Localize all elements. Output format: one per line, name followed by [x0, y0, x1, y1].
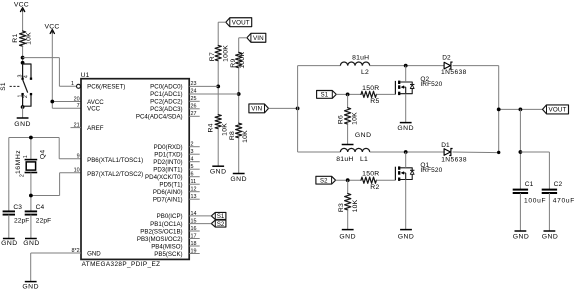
svg-text:VOUT: VOUT: [549, 107, 567, 114]
svg-text:S1: S1: [321, 93, 329, 99]
switch S1: [0, 61, 32, 109]
capacitor C1 100uF: [513, 181, 547, 204]
svg-text:GND: GND: [339, 234, 356, 241]
capacitor C4 22pF: [25, 204, 52, 225]
svg-text:C4: C4: [36, 204, 45, 211]
wire bottom rail left: [298, 151, 341, 153]
resistor R3 10K: [338, 180, 359, 212]
svg-text:GND: GND: [210, 169, 227, 176]
junction AVCC branch: [50, 100, 54, 104]
svg-text:2: 2: [23, 95, 29, 98]
net tag VIN (converter input): [249, 104, 269, 113]
junction crystal bottom: [29, 194, 33, 198]
wire pin14 to S1 tag: [189, 215, 211, 217]
svg-text:27: 27: [191, 111, 197, 117]
svg-text:PC4(ADC4/SDA): PC4(ADC4/SDA): [136, 114, 183, 121]
svg-text:150R: 150R: [362, 171, 379, 178]
junction node R1/S1/reset: [21, 56, 25, 60]
ground GND (Q1): [398, 230, 415, 241]
svg-text:22pF: 22pF: [14, 218, 29, 225]
svg-text:D1: D1: [441, 142, 450, 149]
svg-text:9: 9: [77, 154, 80, 160]
wire VOUT row: [499, 108, 543, 110]
svg-text:100uF: 100uF: [524, 197, 546, 204]
wire top rail left: [298, 65, 341, 67]
junction ADC1 node: [237, 92, 241, 96]
svg-text:6: 6: [191, 172, 194, 178]
svg-text:2: 2: [191, 142, 194, 148]
svg-text:PC0(ADC0): PC0(ADC0): [150, 84, 182, 91]
svg-text:GND: GND: [230, 176, 247, 183]
svg-text:5: 5: [191, 164, 194, 170]
wire VOUT tag to R7: [218, 22, 226, 45]
wire S2 tag to R2: [336, 179, 361, 181]
svg-text:100K: 100K: [223, 45, 230, 62]
net tag S1 (gate drive): [317, 91, 337, 99]
wire C1 branch: [519, 109, 521, 189]
junction R3 node (top): [346, 178, 350, 182]
svg-text:R1: R1: [12, 33, 19, 42]
svg-text:4: 4: [24, 75, 30, 78]
svg-text:PC2(ADC2): PC2(ADC2): [150, 99, 182, 106]
junction C1/C2 branch: [519, 150, 523, 154]
capacitor C3 22pF: [3, 204, 30, 225]
capacitor C2 470uF: [542, 181, 575, 204]
ground GND (C3): [1, 239, 18, 248]
crystal Q4 16MHz: [15, 150, 46, 178]
power flag VCC (U1 supply): [44, 24, 59, 34]
svg-text:10K: 10K: [25, 32, 32, 45]
svg-text:PC6(/RESET): PC6(/RESET): [87, 84, 125, 91]
net tag S2 (from PB1): [211, 220, 226, 228]
junction VIN rail: [296, 107, 300, 111]
svg-text:470uF: 470uF: [553, 197, 575, 204]
wire L2 to Q2 drain node: [370, 65, 444, 67]
ground GND (U1): [22, 282, 39, 291]
inductor L1 81uH: [336, 148, 369, 163]
svg-text:4: 4: [191, 157, 194, 163]
svg-text:GND: GND: [397, 125, 414, 132]
svg-text:R5: R5: [370, 98, 379, 105]
svg-text:21: 21: [74, 123, 80, 129]
svg-text:16: 16: [191, 226, 197, 232]
wire VCC to AVCC/VCC pins: [52, 34, 81, 109]
svg-text:PB6(XTAL1/TOSC1): PB6(XTAL1/TOSC1): [87, 157, 143, 164]
resistor R5 150R: [361, 85, 380, 105]
wire XTAL1 net: [9, 138, 81, 212]
svg-text:PD7(AIN1): PD7(AIN1): [153, 197, 183, 204]
svg-text:PB0(ICP): PB0(ICP): [157, 213, 183, 220]
svg-text:81uH: 81uH: [336, 156, 353, 163]
svg-text:R2: R2: [370, 184, 379, 191]
svg-text:1N5638: 1N5638: [441, 156, 467, 163]
svg-text:13: 13: [191, 194, 197, 200]
wire R5 to Q2 gate: [376, 93, 395, 95]
svg-text:R3: R3: [338, 203, 345, 212]
wire input rail: [297, 66, 299, 152]
svg-text:S2: S2: [320, 178, 328, 184]
svg-text:GND: GND: [1, 240, 18, 247]
svg-text:26: 26: [191, 104, 197, 110]
ground GND (C4): [23, 239, 40, 248]
svg-text:L1: L1: [360, 156, 368, 163]
svg-text:C2: C2: [554, 181, 563, 188]
wire GND pin 8: [31, 253, 81, 282]
wire pin24 to node: [189, 93, 239, 95]
ground GND (C1): [513, 231, 530, 240]
svg-text:PD4(XCK/T0): PD4(XCK/T0): [145, 174, 183, 181]
svg-text:2: 2: [20, 174, 26, 177]
net tag VOUT (output): [543, 105, 569, 114]
net tag VOUT (top): [226, 18, 252, 27]
svg-text:7: 7: [77, 103, 80, 109]
svg-text:12: 12: [191, 187, 197, 193]
svg-text:D2: D2: [442, 55, 451, 62]
svg-text:10K: 10K: [352, 112, 359, 125]
svg-text:GND: GND: [22, 284, 39, 291]
svg-text:AREF: AREF: [87, 125, 104, 132]
svg-text:PD6(AIN0): PD6(AIN0): [153, 189, 183, 196]
wire D1 to output corner: [453, 151, 499, 154]
svg-text:GND: GND: [23, 240, 40, 247]
svg-text:Q4: Q4: [40, 150, 47, 160]
svg-text:VIN: VIN: [251, 106, 262, 113]
resistor R4 10K: [208, 115, 229, 136]
svg-text:PC3(ADC3): PC3(ADC3): [150, 106, 182, 113]
svg-text:VOUT: VOUT: [232, 19, 250, 26]
resistor R6 10K: [337, 94, 358, 125]
svg-text:C1: C1: [525, 181, 534, 188]
svg-text:C3: C3: [13, 204, 22, 211]
wire pin15 to S2 tag: [189, 223, 211, 225]
svg-text:PB1(OC1A): PB1(OC1A): [150, 221, 182, 228]
wire VIN to rail: [269, 107, 298, 109]
svg-text:PB3(MOSI/OC2): PB3(MOSI/OC2): [137, 236, 183, 243]
net tag S2 (gate drive): [316, 176, 336, 184]
power flag VCC (R1): [14, 2, 29, 12]
junction Q2 drain node: [404, 64, 408, 68]
svg-text:18: 18: [191, 241, 197, 247]
net tag S1 (from PB0): [211, 212, 226, 220]
ground GND (R8): [230, 174, 247, 184]
svg-text:VIN: VIN: [253, 35, 264, 42]
svg-text:3: 3: [191, 149, 194, 155]
svg-text:25: 25: [191, 96, 197, 102]
svg-text:R4: R4: [208, 123, 215, 132]
svg-text:1N5638: 1N5638: [441, 69, 467, 76]
wire C3 to GND: [8, 215, 10, 239]
net tag VIN (top): [247, 33, 266, 42]
inductor L2 81uH: [340, 55, 369, 76]
svg-text:PD0(RXD): PD0(RXD): [154, 144, 183, 151]
junction R6 node (top): [346, 93, 350, 97]
wire R8 to GND: [238, 138, 240, 174]
svg-text:10K: 10K: [222, 123, 229, 136]
wire R7 to R4: [217, 61, 219, 115]
svg-text:R7: R7: [209, 52, 216, 61]
junction crystal top: [29, 136, 33, 140]
ground GND (R3): [339, 230, 356, 241]
svg-text:150R: 150R: [362, 85, 379, 92]
svg-text:R8: R8: [229, 131, 236, 140]
svg-text:1: 1: [23, 155, 29, 158]
junction VOUT right: [519, 108, 523, 112]
wire R1 to S1: [22, 46, 24, 64]
op-amp U1 ATMEGA328P microcontroller: [71, 72, 200, 268]
svg-text:IRF520: IRF520: [420, 167, 442, 174]
svg-text:11: 11: [191, 179, 197, 185]
svg-text:PC1(ADC1): PC1(ADC1): [150, 91, 182, 98]
svg-text:20: 20: [74, 96, 80, 102]
svg-text:81uH: 81uH: [352, 55, 369, 62]
svg-text:U1: U1: [81, 72, 90, 79]
svg-text:PB5(SCK): PB5(SCK): [154, 251, 182, 258]
svg-text:S2: S2: [217, 222, 225, 228]
svg-text:ATMEGA328P_PDIP_EZ: ATMEGA328P_PDIP_EZ: [82, 261, 161, 268]
svg-text:PB7(XTAL2/TOSC2): PB7(XTAL2/TOSC2): [87, 171, 143, 178]
ground GND (C2): [542, 231, 559, 240]
wire R9 to R8: [238, 68, 240, 123]
junction Q1 drain node: [404, 150, 408, 154]
wire pin23 to node: [189, 85, 218, 87]
wire C2 to GND: [548, 193, 550, 231]
svg-text:100K: 100K: [239, 52, 246, 69]
resistor R9 100K: [230, 52, 246, 69]
wire VCC to R1: [22, 8, 24, 31]
svg-text:S1: S1: [0, 82, 7, 91]
svg-text:IRF520: IRF520: [420, 81, 442, 88]
svg-text:GND: GND: [513, 233, 530, 240]
junction ADC0 node: [216, 84, 220, 88]
wire R2 to Q1 gate: [376, 179, 395, 181]
svg-text:S1: S1: [217, 214, 225, 220]
svg-text:R9: R9: [230, 58, 237, 67]
transistor Q2 IRF520: [395, 66, 442, 123]
svg-text:VCC: VCC: [44, 24, 59, 31]
svg-text:PD1(TXD): PD1(TXD): [154, 152, 182, 159]
svg-text:16MHz: 16MHz: [15, 150, 22, 174]
diode D2 1N5638: [441, 55, 467, 76]
svg-text:PD5(T1): PD5(T1): [159, 182, 182, 189]
resistor R1 10K: [12, 31, 33, 46]
svg-text:10: 10: [74, 168, 80, 174]
resistor R8 10K: [229, 123, 249, 143]
svg-text:GND: GND: [14, 121, 31, 128]
svg-text:R6: R6: [337, 115, 344, 124]
svg-text:GND: GND: [87, 250, 101, 257]
ground GND (Q2): [397, 123, 414, 133]
svg-text:22pF: 22pF: [36, 218, 51, 225]
junction output corner: [497, 151, 500, 154]
wire D2 to output corner: [453, 66, 499, 153]
svg-text:19: 19: [191, 248, 197, 254]
svg-text:17: 17: [191, 233, 197, 239]
svg-text:VCC: VCC: [87, 106, 101, 113]
wire L1 to Q1 drain node: [370, 151, 444, 153]
wire R4 to GND: [217, 129, 219, 167]
resistor R2 150R: [361, 171, 380, 191]
wire VIN tag to R9: [239, 38, 247, 53]
wire S1 to GND: [22, 106, 24, 118]
svg-text:1: 1: [71, 81, 74, 87]
wire reset branch: [23, 58, 77, 87]
wire R6 to GND: [347, 124, 349, 144]
svg-text:PD3(INT1): PD3(INT1): [153, 167, 182, 174]
svg-text:GND: GND: [355, 132, 372, 139]
wire C4 to GND: [30, 215, 32, 239]
svg-text:PB4(MISO): PB4(MISO): [151, 243, 182, 250]
svg-text:VCC: VCC: [14, 2, 29, 9]
diode D1 1N5638: [441, 142, 467, 164]
transistor Q1 IRF520: [395, 152, 442, 230]
ground GND (R4): [210, 166, 227, 176]
svg-text:10K: 10K: [242, 130, 249, 143]
wire C2 branch: [520, 152, 549, 190]
svg-text:10K: 10K: [352, 199, 359, 212]
wire XTAL2 net: [31, 173, 81, 212]
junction VOUT left: [497, 108, 501, 112]
svg-text:3: 3: [17, 74, 23, 77]
svg-text:GND: GND: [398, 234, 415, 241]
ground GND (R6): [342, 132, 372, 144]
svg-text:PB2(SS/OC1B): PB2(SS/OC1B): [140, 228, 182, 235]
svg-text:GND: GND: [542, 233, 559, 240]
wire C1 to GND: [519, 193, 521, 231]
ground GND (S1): [14, 118, 31, 128]
svg-text:PD2(INT0): PD2(INT0): [153, 159, 182, 166]
svg-text:L2: L2: [361, 69, 369, 76]
wire S1 tag to R5: [336, 93, 361, 95]
resistor R7 100K: [209, 45, 229, 62]
wire R3 to GND: [347, 210, 349, 230]
